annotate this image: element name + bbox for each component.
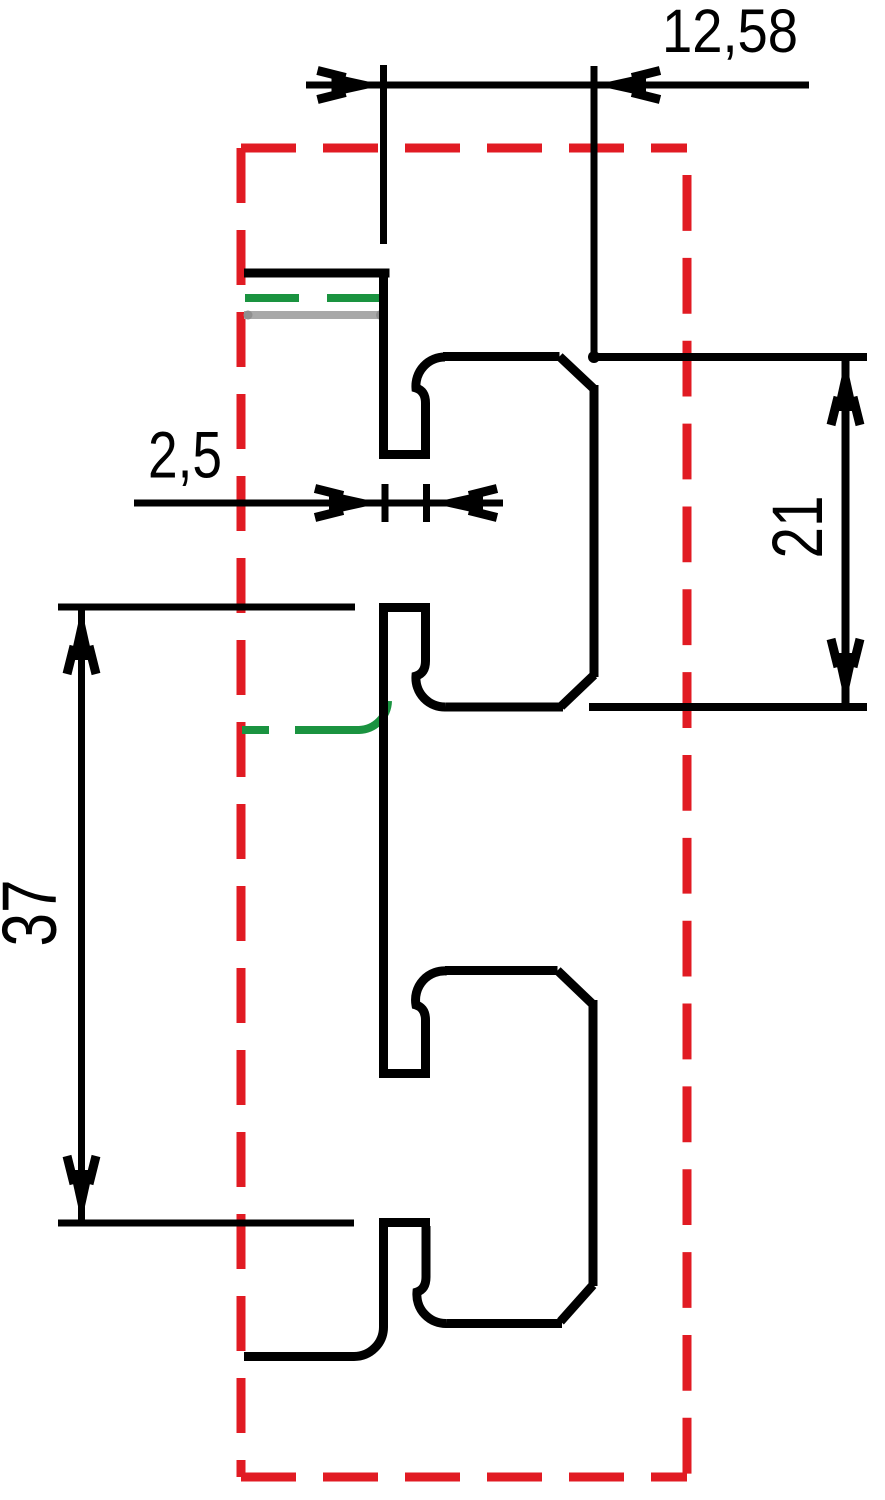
arrow left at right extension xyxy=(594,71,660,100)
lower C bottom chamfer xyxy=(561,1285,594,1322)
dimension line xyxy=(78,608,85,1222)
arrow down xyxy=(831,639,860,705)
extension line right (x=594) xyxy=(591,66,598,352)
svg-text:2,5: 2,5 xyxy=(148,418,222,492)
arrow up xyxy=(67,608,96,674)
dimension 37 xyxy=(58,607,355,1223)
extension line bottom xyxy=(58,1220,354,1227)
upper C bottom chamfer xyxy=(561,675,594,707)
foot horizontal xyxy=(244,1352,354,1361)
tick left xyxy=(382,484,389,522)
arrow down xyxy=(67,1156,96,1222)
svg-text:37: 37 xyxy=(0,880,73,947)
arc + ear + mouth 2 vertical xyxy=(416,611,446,707)
red dashed top edge xyxy=(241,144,687,153)
green hidden line lower (dashed then curving into wall) xyxy=(242,701,388,730)
red dashed bottom edge xyxy=(241,1473,687,1482)
upper C right vertical xyxy=(590,385,599,677)
upper wall vertical xyxy=(379,269,388,458)
red dashed right edge xyxy=(683,148,692,1477)
svg-text:12,58: 12,58 xyxy=(662,0,798,65)
throat 2 bottom xyxy=(379,1069,430,1078)
profile outline xyxy=(244,269,594,1357)
red dashed clearance outline (rectangle) xyxy=(241,148,687,1477)
extension line top xyxy=(597,353,867,361)
svg-text:21: 21 xyxy=(759,496,838,559)
top lip horizontal xyxy=(244,269,390,278)
lower C top chamfer xyxy=(558,971,594,1005)
shoulder top (37 ref) xyxy=(379,603,430,612)
extension line left (x=383.5) xyxy=(380,65,387,244)
foot arc xyxy=(354,1327,384,1357)
arrow right at left tick xyxy=(315,489,381,518)
dimension 2,5 xyxy=(134,484,503,522)
gray reference line under top lip xyxy=(244,311,385,319)
bottom lip horizontal (37 ref) xyxy=(379,1218,430,1227)
arrow right at left extension xyxy=(318,71,384,100)
upper C top horizontal xyxy=(443,352,560,361)
junction dot at top-right profile corner xyxy=(588,351,600,363)
lower C right vertical xyxy=(589,1000,598,1286)
bottom lip left vertical xyxy=(379,1219,388,1327)
stem wall vertical xyxy=(379,604,388,1077)
dimension 12,58 xyxy=(306,65,809,352)
green hidden line upper (dashed, under top lip) xyxy=(245,294,385,302)
red dashed left edge xyxy=(237,148,246,1477)
throat 1 bottom xyxy=(379,450,430,459)
extension line top xyxy=(58,604,355,611)
arc + ear + mouth 4 vertical xyxy=(417,1226,447,1324)
lower C bottom horizontal xyxy=(447,1319,562,1328)
dimension line xyxy=(306,82,809,89)
mouth 3 vertical + ear + arc to lower C top xyxy=(416,971,447,1077)
dimension line xyxy=(842,359,850,705)
upper C top chamfer xyxy=(560,357,595,390)
gray line end dot left xyxy=(244,311,253,320)
upper C bottom horizontal xyxy=(446,703,563,712)
dimension 21 xyxy=(589,357,867,707)
extension line bottom xyxy=(589,703,867,711)
arrow up xyxy=(831,359,860,425)
mouth 1 vertical + ear + arc to upper C top xyxy=(416,357,445,458)
arrow left at right tick xyxy=(431,489,497,518)
tick right xyxy=(423,484,430,522)
dimension line xyxy=(134,500,503,507)
gray line end dot right xyxy=(376,310,386,320)
lower C top horizontal xyxy=(445,966,558,975)
